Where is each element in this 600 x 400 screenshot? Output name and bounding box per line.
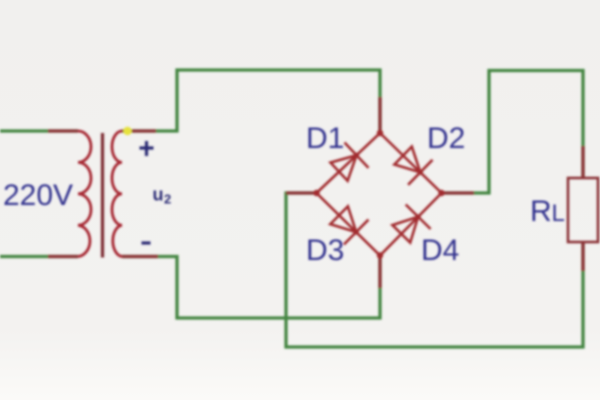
- transformer core: [101, 133, 104, 258]
- transformer T primary winding: [78, 131, 91, 257]
- diode D4 (anode bottom node, cathode right node): [392, 205, 430, 243]
- node left junction: [313, 190, 319, 196]
- svg-text:R: R: [530, 195, 552, 228]
- wire red stub resistor top: [581, 146, 584, 178]
- wire red stub bridge top node: [378, 97, 381, 133]
- wire red stub secondary top: [122, 129, 156, 132]
- node top junction: [377, 130, 383, 136]
- svg-text:D2: D2: [427, 122, 465, 155]
- resistor RL: [568, 178, 598, 242]
- svg-text:u: u: [153, 185, 164, 205]
- node bottom junction: [377, 252, 383, 258]
- wire secondary top to bridge top node: [122, 70, 380, 133]
- wire red stub bridge right node: [442, 191, 475, 194]
- svg-text:D4: D4: [421, 234, 459, 267]
- wire bridge right node up over to load top: [442, 71, 584, 194]
- wire bridge left node down to load bottom rail: [286, 193, 583, 347]
- diode D3 (anode left node, cathode bottom node): [330, 206, 368, 244]
- wire secondary bottom to bridge bottom node: [122, 256, 380, 319]
- wire red stub bridge bottom node: [378, 256, 381, 289]
- diode D1 (anode left node, cathode top node): [331, 143, 369, 181]
- transformer T secondary winding: [112, 131, 122, 257]
- wire red stub primary top: [48, 129, 78, 132]
- label + (secondary plus): [140, 141, 154, 156]
- svg-text:D3: D3: [306, 234, 344, 267]
- wire red stub bridge left node: [286, 191, 317, 194]
- wire primary top lead (green): [0, 129, 78, 132]
- wire red stub primary bottom: [48, 255, 78, 258]
- polarity dot (yellow): [123, 127, 131, 135]
- wire red stub resistor bottom: [581, 242, 584, 271]
- label - (secondary minus): [142, 241, 151, 244]
- wire red stub secondary bottom: [122, 255, 158, 258]
- bridge diamond edges: [317, 133, 442, 256]
- svg-text:D1: D1: [306, 122, 344, 155]
- svg-text:L: L: [552, 200, 565, 227]
- svg-text:2: 2: [164, 192, 171, 207]
- node right junction: [438, 190, 444, 196]
- diode D2 (anode top node, cathode right node): [394, 147, 432, 185]
- svg-text:220V: 220V: [3, 179, 73, 212]
- wire primary bottom lead (green): [0, 255, 78, 258]
